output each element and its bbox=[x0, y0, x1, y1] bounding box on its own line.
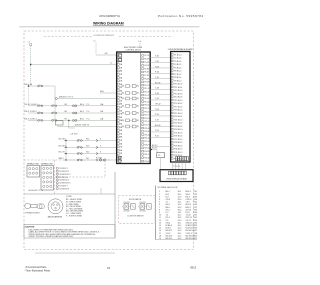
svg-text:P17 BU-6: P17 BU-6 bbox=[174, 106, 182, 108]
wire L2 drop bbox=[95, 43, 97, 56]
wire EOC inner divider bbox=[140, 52, 142, 164]
svg-text:P-3: P-3 bbox=[87, 118, 90, 120]
svg-text:P10 BU-3: P10 BU-3 bbox=[174, 84, 182, 86]
svg-text:Publication No. 59958784: Publication No. 59958784 bbox=[158, 14, 204, 18]
svg-text:XXXXXXX 2: XXXXXXX 2 bbox=[59, 171, 69, 173]
svg-text:DL MOTOR SWITCH: DL MOTOR SWITCH bbox=[128, 216, 145, 218]
svg-text:Y-41: Y-41 bbox=[155, 98, 159, 100]
svg-text:P13 BU-3: P13 BU-3 bbox=[174, 93, 182, 95]
svg-text:(R): (R) bbox=[136, 126, 139, 128]
svg-text:OR-42: OR-42 bbox=[155, 104, 161, 106]
svg-text:P5 BU-6: P5 BU-6 bbox=[174, 67, 181, 69]
svg-text:T-44: T-44 bbox=[155, 109, 159, 111]
svg-text:P-39: P-39 bbox=[155, 93, 159, 95]
wire interface to display drops bbox=[172, 162, 174, 170]
svg-text:(BK)XX Y-BR XX: (BK)XX Y-BR XX bbox=[75, 125, 90, 127]
wire page dashed border bbox=[24, 31, 193, 250]
svg-text:P23 BU-6: P23 BU-6 bbox=[174, 126, 182, 128]
svg-text:XXXXXXXX 3: XXXXXXXX 3 bbox=[59, 174, 70, 176]
node interface pin column bbox=[171, 54, 173, 56]
node EOC pin column bbox=[142, 55, 144, 57]
svg-text:XXXXXX 4: XXXXXX 4 bbox=[59, 177, 68, 179]
svg-text:P24 BU-0: P24 BU-0 bbox=[174, 129, 182, 131]
svg-text:P1 BU-3: P1 BU-3 bbox=[174, 54, 181, 56]
svg-text:CONTROL (EOC): CONTROL (EOC) bbox=[125, 50, 140, 52]
oven element row 3 bbox=[64, 153, 117, 155]
svg-text:P6 BU-0: P6 BU-0 bbox=[174, 71, 181, 73]
svg-text:P26-2X: P26-2X bbox=[144, 138, 151, 140]
svg-text:XX1: XX1 bbox=[194, 238, 198, 240]
svg-text:L.A. XXX: L.A. XXX bbox=[70, 132, 78, 135]
svg-text:P20-5X: P20-5X bbox=[144, 118, 151, 120]
svg-text:Y-30: Y-30 bbox=[155, 56, 159, 58]
wire stub row 93 bbox=[100, 92, 117, 94]
svg-text:BK-61 14 BK-1: BK-61 14 BK-1 bbox=[25, 104, 39, 106]
svg-text:BK-3: BK-3 bbox=[80, 118, 84, 120]
wire stub row 99 bbox=[58, 98, 117, 100]
wire legend stub bbox=[100, 188, 102, 194]
svg-text:P23-8X: P23-8X bbox=[144, 128, 151, 130]
node arrows on oven rows bbox=[96, 139, 98, 141]
svg-text:P25 BU-3: P25 BU-3 bbox=[174, 132, 182, 134]
svg-text:WIRING DIAGRAM: WIRING DIAGRAM bbox=[93, 22, 124, 26]
connector J2 bbox=[118, 156, 121, 159]
svg-text:P31 BU-3: P31 BU-3 bbox=[174, 152, 182, 154]
wire lower bus bbox=[65, 141, 67, 161]
svg-text:P - PURPLE WIRE: P - PURPLE WIRE bbox=[66, 215, 83, 217]
svg-text:XXXXXX 7: XXXXXX 7 bbox=[59, 186, 68, 188]
svg-text:P16-4X: P16-4X bbox=[144, 105, 151, 107]
wire dashed cooktop bottom bbox=[24, 159, 110, 161]
svg-text:BK-6: BK-6 bbox=[80, 104, 84, 106]
svg-text:P-34: P-34 bbox=[155, 72, 159, 74]
svg-text:P1-7X: P1-7X bbox=[144, 55, 150, 57]
svg-text:P3 BU-0: P3 BU-0 bbox=[174, 61, 181, 63]
svg-text:T-50: T-50 bbox=[155, 130, 159, 132]
svg-text:P27-0X: P27-0X bbox=[144, 141, 151, 143]
svg-text:P28 BU-3: P28 BU-3 bbox=[174, 142, 182, 144]
connector J1 bbox=[118, 54, 121, 57]
svg-text:P9-0X: P9-0X bbox=[144, 82, 150, 84]
svg-text:P17-2X: P17-2X bbox=[144, 108, 151, 110]
svg-text:P11-5X: P11-5X bbox=[144, 88, 151, 90]
connector J3 interface bottom bbox=[176, 157, 178, 161]
svg-text:BK-3 W: BK-3 W bbox=[59, 152, 65, 154]
wire header rule bbox=[19, 26, 199, 28]
node junction bbox=[68, 120, 70, 122]
svg-text:P7-4X: P7-4X bbox=[144, 75, 150, 77]
svg-text:* Non-Illustrated Parts: * Non-Illustrated Parts bbox=[25, 269, 51, 273]
wire footer rule bbox=[35, 252, 115, 254]
svg-text:P30 BU-0: P30 BU-0 bbox=[174, 149, 182, 151]
svg-text:BK-XX: BK-XX bbox=[152, 145, 158, 147]
svg-text:(B): (B) bbox=[122, 86, 125, 88]
svg-text:P20 BU-6: P20 BU-6 bbox=[174, 116, 182, 118]
svg-text:P19 BU-3: P19 BU-3 bbox=[174, 113, 182, 115]
svg-text:Y-35: Y-35 bbox=[155, 77, 159, 79]
svg-text:BU-36: BU-36 bbox=[155, 82, 160, 84]
svg-text:COOKTOP CIRCUIT: COOKTOP CIRCUIT bbox=[94, 35, 115, 37]
svg-text:(R): (R) bbox=[136, 98, 139, 100]
wire cooktop section dashed line bbox=[44, 36, 92, 38]
node door latch dashed box bbox=[118, 196, 155, 224]
svg-text:(R): (R) bbox=[136, 120, 139, 122]
svg-text:BK-2 10 BK-3: BK-2 10 BK-3 bbox=[25, 118, 38, 120]
svg-text:T-38: T-38 bbox=[155, 88, 159, 90]
svg-text:P8-2X: P8-2X bbox=[144, 78, 150, 80]
op-amp U1 electronic oven control board bbox=[117, 52, 151, 164]
wire mid bus bbox=[54, 86, 56, 120]
svg-text:L2: L2 bbox=[94, 41, 96, 43]
svg-text:P9 BU-0: P9 BU-0 bbox=[174, 80, 181, 82]
svg-text:P31-1X: P31-1X bbox=[144, 154, 151, 156]
svg-text:BK-4 12 BK-2: BK-4 12 BK-2 bbox=[25, 111, 38, 113]
svg-text:P13-1X: P13-1X bbox=[144, 95, 151, 97]
svg-text:P12-3X: P12-3X bbox=[144, 92, 151, 94]
svg-text:P21-3X: P21-3X bbox=[144, 121, 151, 123]
wire dashed vertical x54.5 bbox=[54, 160, 56, 194]
svg-text:T-BK: T-BK bbox=[155, 66, 160, 68]
svg-text:P2 BU-6: P2 BU-6 bbox=[174, 58, 181, 60]
svg-text:P10-7X: P10-7X bbox=[144, 85, 151, 87]
svg-text:(BA) X: (BA) X bbox=[59, 157, 65, 160]
svg-text:P7 BU-3: P7 BU-3 bbox=[174, 74, 181, 76]
svg-text:P6-6X: P6-6X bbox=[144, 72, 150, 74]
svg-text:W-0: W-0 bbox=[86, 152, 89, 154]
node EOC left pins bbox=[117, 54, 119, 56]
svg-text:BK-8 BR: BK-8 BR bbox=[59, 145, 67, 147]
svg-text:CAUTION: CAUTION bbox=[25, 226, 35, 229]
svg-text:SURFACE UNIT: SURFACE UNIT bbox=[27, 162, 39, 165]
svg-text:XXXXXX 1: XXXXXX 1 bbox=[59, 168, 68, 170]
wire dashed console bottom bbox=[55, 176, 105, 178]
svg-text:P18 BU-0: P18 BU-0 bbox=[174, 110, 182, 112]
svg-text:P15 BU-0: P15 BU-0 bbox=[174, 100, 182, 102]
svg-text:3913: 3913 bbox=[190, 266, 197, 270]
svg-text:OVEN INTERFACE BOARD: OVEN INTERFACE BOARD bbox=[168, 48, 194, 51]
svg-text:19: 19 bbox=[159, 238, 161, 240]
svg-text:P14 BU-6: P14 BU-6 bbox=[174, 97, 182, 99]
svg-text:BU-48: BU-48 bbox=[155, 125, 160, 127]
svg-text:19: 19 bbox=[107, 266, 111, 270]
svg-text:P28-7X: P28-7X bbox=[144, 144, 151, 146]
connector J4 display pins bbox=[169, 171, 171, 175]
wire left bus bbox=[28, 86, 30, 106]
svg-text:P25-4X: P25-4X bbox=[144, 134, 151, 136]
connector P2 on dashed line bbox=[99, 159, 101, 161]
wire probe section top line bbox=[24, 193, 115, 195]
svg-text:(B): (B) bbox=[122, 126, 125, 128]
wire harness EOC to interface bbox=[150, 56, 170, 58]
heating element row 3 bbox=[28, 112, 117, 114]
svg-text:L&L&L&NP 1 2 3 4: L&L&L&NP 1 2 3 4 bbox=[28, 190, 43, 192]
svg-text:(B): (B) bbox=[122, 113, 125, 115]
svg-text:XX XXX: XX XXX bbox=[124, 211, 131, 213]
oven element row 1 bbox=[64, 140, 117, 142]
svg-text:(R): (R) bbox=[136, 113, 139, 115]
resistor bank surface unit right bbox=[41, 166, 54, 191]
svg-text:W-7: W-7 bbox=[86, 158, 89, 160]
svg-text:P29 BU-6: P29 BU-6 bbox=[174, 145, 182, 147]
svg-text:P27 BU-0: P27 BU-0 bbox=[174, 139, 182, 141]
svg-text:P19-7X: P19-7X bbox=[144, 115, 151, 117]
svg-text:P22-1X: P22-1X bbox=[144, 125, 151, 127]
svg-text:XX XXX: XX XXX bbox=[140, 211, 147, 213]
svg-text:P15-6X: P15-6X bbox=[144, 101, 151, 103]
svg-text:BK-5 BR: BK-5 BR bbox=[59, 139, 67, 141]
svg-text:XX XXX: XX XXX bbox=[124, 202, 131, 204]
heating element row 1 bbox=[28, 85, 55, 87]
svg-text:P2-5X: P2-5X bbox=[144, 59, 150, 61]
node junction L1 bbox=[30, 64, 32, 66]
svg-text:P12 BU-0: P12 BU-0 bbox=[174, 90, 182, 92]
svg-text:NO WIRE GA COLOR: NO WIRE GA COLOR bbox=[158, 186, 178, 189]
svg-text:P-2: P-2 bbox=[87, 111, 90, 113]
svg-text:P-51: P-51 bbox=[155, 136, 159, 138]
transformer T1 bbox=[157, 153, 165, 158]
svg-text:(B): (B) bbox=[122, 98, 125, 100]
svg-text:P16 BU-3: P16 BU-3 bbox=[174, 103, 182, 105]
svg-text:W-5: W-5 bbox=[86, 139, 89, 141]
svg-text:CPGS389FPYA: CPGS389FPYA bbox=[99, 14, 120, 18]
op-amp U2 oven interface board bbox=[171, 52, 190, 163]
svg-text:P26 BU-6: P26 BU-6 bbox=[174, 136, 182, 138]
svg-text:XX XXX: XX XXX bbox=[140, 202, 147, 204]
svg-text:Y-47: Y-47 bbox=[155, 120, 159, 122]
svg-text:P30-3X: P30-3X bbox=[144, 151, 151, 153]
svg-text:OVEN DISPLAY BOARD: OVEN DISPLAY BOARD bbox=[166, 178, 188, 181]
svg-text:BK-XX: BK-XX bbox=[152, 148, 158, 150]
connector column lamps bbox=[56, 167, 58, 169]
svg-text:P-45: P-45 bbox=[155, 114, 159, 116]
wire L1 to EOC bbox=[31, 64, 117, 66]
node junction dot bbox=[28, 85, 30, 87]
svg-text:(R): (R) bbox=[136, 86, 139, 88]
heating element row 2 bbox=[28, 105, 117, 107]
svg-text:CODE: CODE bbox=[66, 196, 72, 198]
svg-text:P33-6X: P33-6X bbox=[144, 161, 151, 163]
oven element row 2 bbox=[64, 146, 117, 148]
svg-text:XXXXXXX 8: XXXXXXX 8 bbox=[59, 188, 69, 190]
wire drop to lower rows bbox=[68, 120, 70, 128]
svg-text:16-3: 16-3 bbox=[178, 238, 182, 240]
svg-text:P21 BU-0: P21 BU-0 bbox=[174, 119, 182, 121]
svg-text:(B): (B) bbox=[122, 93, 125, 95]
svg-text:P4-1X: P4-1X bbox=[144, 65, 150, 67]
svg-text:P24-6X: P24-6X bbox=[144, 131, 151, 133]
svg-text:BR-W-5: BR-W-5 bbox=[166, 238, 173, 240]
svg-text:P29-5X: P29-5X bbox=[144, 148, 151, 150]
node caution box bbox=[24, 225, 115, 239]
svg-text:P32-8X: P32-8X bbox=[144, 158, 151, 160]
svg-text:(R): (R) bbox=[136, 93, 139, 95]
svg-text:P14-8X: P14-8X bbox=[144, 98, 151, 100]
switch S1 latch left bbox=[124, 204, 129, 210]
svg-text:P3-3X: P3-3X bbox=[144, 62, 150, 64]
wire EOC bottom drops bbox=[150, 146, 170, 148]
svg-text:SURFACE UNIT: SURFACE UNIT bbox=[41, 162, 53, 165]
wire dashed console right bbox=[104, 160, 106, 177]
wire row 126.5 bbox=[57, 126, 117, 128]
svg-text:P-1: P-1 bbox=[87, 104, 90, 106]
svg-text:P4 BU-3: P4 BU-3 bbox=[174, 64, 181, 66]
oven element row 4 bbox=[64, 159, 117, 161]
svg-text:(B): (B) bbox=[122, 106, 125, 108]
resistor bank surface unit left bbox=[27, 166, 40, 178]
connector table harness plug bbox=[48, 199, 63, 214]
fuse F1 bbox=[30, 44, 32, 46]
op-amp U3 oven display board bbox=[160, 170, 193, 182]
heating element row 4 bbox=[28, 119, 117, 121]
svg-text:DOOR LATCH: DOOR LATCH bbox=[129, 198, 142, 201]
wire divider x115 bbox=[114, 172, 116, 238]
svg-text:BK-5: BK-5 bbox=[80, 111, 84, 113]
svg-text:# Functional Parts: # Functional Parts bbox=[26, 265, 48, 269]
svg-text:W-3: W-3 bbox=[86, 145, 89, 147]
node legend table border bbox=[154, 186, 156, 240]
svg-text:P5-8X: P5-8X bbox=[144, 68, 150, 70]
svg-text:P11 BU-6: P11 BU-6 bbox=[174, 87, 182, 89]
svg-text:XXXXXXXX 6: XXXXXXXX 6 bbox=[59, 183, 70, 185]
svg-text:P22 BU-3: P22 BU-3 bbox=[174, 123, 182, 125]
svg-text:XXXXXXX 5: XXXXXXX 5 bbox=[59, 180, 69, 182]
svg-text:PROBE SOCKET: PROBE SOCKET bbox=[26, 212, 41, 214]
wire N feed to EOC bbox=[96, 54, 117, 56]
svg-text:1 2 3 4 5: 1 2 3 4 5 bbox=[173, 166, 180, 168]
svg-text:P-8 P-9: P-8 P-9 bbox=[96, 157, 102, 159]
svg-text:Y-32: Y-32 bbox=[155, 61, 159, 63]
svg-text:(B): (B) bbox=[122, 120, 125, 122]
svg-text:P8 BU-6: P8 BU-6 bbox=[174, 77, 181, 79]
connector probe socket bbox=[25, 203, 31, 209]
svg-text:(BK): (BK) bbox=[100, 91, 104, 93]
svg-text:L1: L1 bbox=[28, 41, 30, 43]
wire L1 drop bbox=[30, 46, 32, 86]
svg-text:VERIFY PROPER OPERATION AFTER: VERIFY PROPER OPERATION AFTER SERVICING. bbox=[29, 235, 74, 238]
svg-text:(R): (R) bbox=[136, 106, 139, 108]
svg-text:(BR)XXX OY-9 4: (BR)XXX OY-9 4 bbox=[59, 97, 73, 99]
svg-text:TABLE HARNESS: TABLE HARNESS bbox=[48, 216, 64, 219]
switch S2 latch right bbox=[140, 204, 145, 210]
svg-text:P18-0X: P18-0X bbox=[144, 111, 151, 113]
